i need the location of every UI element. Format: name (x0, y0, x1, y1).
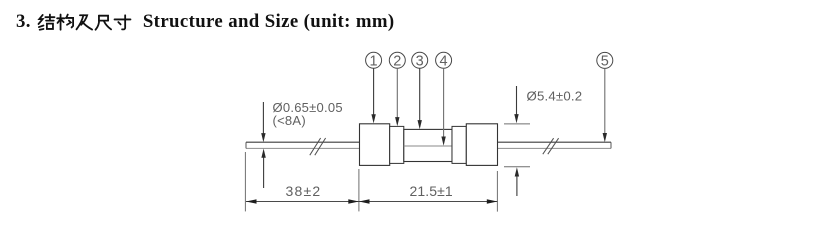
leader 2 (395, 68, 399, 126)
cap diameter upper arrow (514, 86, 518, 123)
dim arrow at left pointing left (246, 199, 257, 203)
break symbol on left lead (310, 138, 326, 155)
svg-text:2: 2 (393, 53, 401, 69)
hanzi gou 构 (57, 14, 73, 29)
hanzi jie 结 (38, 14, 54, 29)
svg-text:5: 5 (601, 54, 609, 70)
svg-text:3: 3 (416, 53, 424, 69)
balloon 1 (366, 52, 382, 69)
leader 5 (603, 68, 607, 142)
break symbol on right lead (543, 138, 559, 154)
right ferrule step (452, 126, 466, 163)
svg-text:21.5±1: 21.5±1 (410, 183, 453, 199)
cap diameter lower arrow (515, 167, 519, 196)
balloon 3 (412, 52, 428, 69)
balloon 4 (436, 52, 452, 69)
balloon 5 (597, 52, 613, 69)
svg-text:38±2: 38±2 (286, 183, 322, 199)
lead diameter upper arrow (261, 102, 265, 142)
svg-text:1: 1 (370, 53, 378, 69)
glass tube body (404, 129, 452, 161)
extension line middle (cap edge) (358, 169, 360, 211)
cap diameter top extension line (504, 123, 530, 125)
section title (16, 11, 395, 33)
svg-text:4: 4 (440, 53, 448, 69)
right lead wire (498, 142, 612, 148)
cap diameter bottom extension line (504, 166, 530, 168)
dim arrows at middle (348, 199, 359, 203)
extension line left (lead end) (244, 152, 246, 211)
left end cap (360, 124, 390, 166)
leader 3 (418, 68, 422, 129)
extension line right (cap edge) (496, 171, 498, 212)
lead diameter lower arrow (261, 149, 265, 189)
svg-text:Ø5.4±0.2: Ø5.4±0.2 (527, 88, 583, 103)
hanzi ji 及 (76, 15, 92, 29)
lead diameter label (273, 100, 343, 128)
right end cap (466, 124, 497, 166)
dimension line (246, 201, 498, 203)
left ferrule step (390, 126, 404, 163)
leader 1 (371, 68, 375, 123)
balloon 2 (389, 52, 405, 69)
dim arrow at right pointing right (487, 199, 498, 203)
leader 4 (441, 68, 445, 145)
fuse element wire (404, 145, 452, 147)
hanzi chi 尺 (95, 15, 111, 29)
svg-text:(<8A): (<8A) (273, 113, 306, 128)
hanzi cun 寸 (114, 15, 130, 29)
left lead wire (246, 142, 360, 148)
